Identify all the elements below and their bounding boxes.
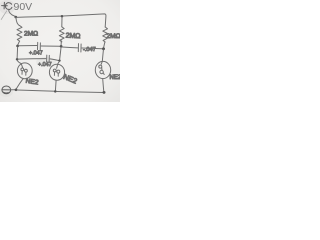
node 2 (middle plate node) xyxy=(60,45,63,48)
node: top rail middle junction xyxy=(61,15,64,17)
wire: from corner down to R1 top xyxy=(16,18,19,26)
capacitor C1 plates xyxy=(37,42,39,49)
wire: lamp 1 to bottom rail xyxy=(16,79,23,89)
wire from + terminal to top rail corner xyxy=(9,9,15,16)
node: bottom right junction xyxy=(103,91,106,94)
battery negative terminal (circle with line) xyxy=(2,86,11,94)
svg-text:NE2: NE2 xyxy=(110,75,121,81)
wire: node 1 to C1 left plate xyxy=(19,45,37,47)
wire: negative terminal to bottom rail junction xyxy=(11,89,15,91)
wire: C3 right plate to node 3 xyxy=(82,47,102,50)
neon lamp NE2 (right) envelope xyxy=(95,61,110,78)
wire: node 2 to C3 left plate xyxy=(62,46,77,49)
resistor R2 2MΩ xyxy=(59,27,64,42)
faint pencil slip stroke below + terminal xyxy=(1,11,7,20)
resistor R1 2MΩ xyxy=(17,25,22,41)
wire: top rail right segment with corner down xyxy=(63,14,106,27)
node: bottom-left junction xyxy=(15,89,18,92)
node 3 (right plate node) xyxy=(102,47,105,50)
neon lamp NE2 (middle) envelope xyxy=(49,64,64,80)
node: middle lower branch junction xyxy=(58,60,60,62)
node: lower-left branch junction xyxy=(16,58,19,60)
wire: branch to C2 left plate xyxy=(18,58,46,61)
capacitor C2 plates xyxy=(46,55,48,62)
svg-text:90V: 90V xyxy=(14,1,33,13)
svg-text:+.047: +.047 xyxy=(29,51,43,57)
wire: branch into lamp 2 xyxy=(57,62,60,69)
svg-text:2MΩ: 2MΩ xyxy=(107,33,121,40)
neon lamp NE2 (left) envelope xyxy=(17,63,32,79)
wire: R1 bottom to node 1 xyxy=(18,41,20,45)
battery positive terminal (circle with plus) xyxy=(2,2,12,9)
wire: bottom rail xyxy=(17,90,55,91)
node 1 (left plate node) xyxy=(16,45,19,48)
paper smudge under C2 label xyxy=(36,57,56,67)
node: top-left corner junction xyxy=(14,16,17,19)
lamp 1 electrodes xyxy=(21,68,24,71)
wire: top rail left segment xyxy=(16,16,61,17)
wire: C1 right plate to node 2 xyxy=(41,45,60,47)
wire: C2 right plate to middle column xyxy=(50,59,59,61)
capacitor C3 plates xyxy=(77,44,79,52)
wire: R2 bottom to node 2 xyxy=(60,41,62,45)
svg-text:+.047: +.047 xyxy=(38,62,52,68)
wire: middle junction down to R2 top xyxy=(61,17,63,26)
svg-text:2MΩ: 2MΩ xyxy=(65,33,80,41)
wire: branch down into lamp 1 xyxy=(17,60,22,67)
wire: lamp 2 to bottom rail xyxy=(54,80,57,91)
paper smudge bottom-left terminal xyxy=(0,87,13,97)
wire: node 2 down to middle branch xyxy=(60,48,61,60)
resistor R3 2MΩ xyxy=(103,27,108,42)
lamp 3 electrodes xyxy=(99,65,102,68)
lamp 2 electrodes xyxy=(53,69,56,72)
wire: lamp 3 to bottom rail xyxy=(103,79,104,92)
wire: node 1 down to lower branch point xyxy=(16,47,19,59)
wire: node 3 down into lamp 3 xyxy=(101,50,103,64)
node: bottom middle junction xyxy=(54,90,57,92)
paper smudge top-left xyxy=(0,0,15,14)
wire: R3 bottom to node 3 xyxy=(104,42,105,48)
svg-text:2MΩ: 2MΩ xyxy=(24,30,38,37)
